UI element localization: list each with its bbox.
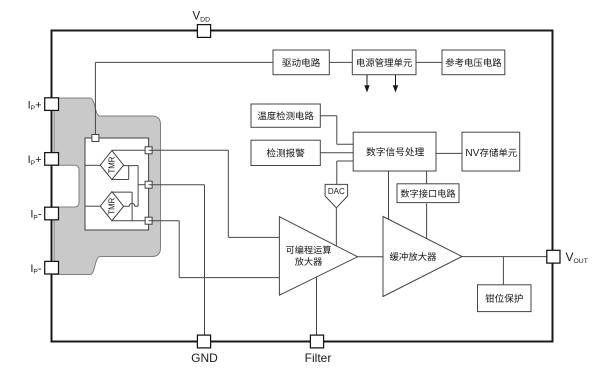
TMR element 1 xyxy=(100,151,123,180)
block power management unit xyxy=(352,50,416,75)
wire node B to GND xyxy=(149,184,205,186)
pin Filter pad xyxy=(310,335,323,348)
wire d1-top to node A xyxy=(112,149,149,151)
wire d2-top horizontal xyxy=(112,191,132,193)
block clamp protection xyxy=(478,285,532,312)
svg-text:TMR: TMR xyxy=(107,156,116,173)
node A xyxy=(145,147,152,154)
TMR bridge frame xyxy=(85,138,149,230)
wire DSP to DAC xyxy=(337,160,353,162)
block drive circuit xyxy=(273,50,329,75)
svg-text:IP-: IP- xyxy=(30,209,41,222)
wire drive to bridge horizontal xyxy=(95,61,273,63)
wire frame-left to d1-left xyxy=(85,164,100,166)
arrow 1 from power mgmt xyxy=(366,75,368,87)
wire to clamp protection xyxy=(502,257,504,285)
pin IP3 pad xyxy=(45,207,59,220)
wire DAC to op-amp xyxy=(335,208,337,246)
pin IP2 pad xyxy=(45,153,59,166)
node C xyxy=(145,217,152,224)
block detection alarm xyxy=(251,140,320,165)
pin VOUT pad xyxy=(547,250,560,263)
wire drive to power mgmt xyxy=(329,61,352,63)
wire temp sense to DSP xyxy=(320,115,337,117)
wire node C to op-amp in2 xyxy=(149,220,180,222)
arrow 2 from power mgmt xyxy=(395,75,397,87)
wire d2-bottom to node C xyxy=(112,220,149,222)
svg-text:VDD: VDD xyxy=(193,11,211,24)
svg-text:TMR: TMR xyxy=(107,197,116,214)
svg-text:DAC: DAC xyxy=(328,187,345,196)
pin VDD pad xyxy=(197,25,210,38)
node top (drive in) xyxy=(92,135,99,142)
svg-text:Filter: Filter xyxy=(305,351,332,365)
block NV storage unit xyxy=(462,132,520,171)
svg-text:IP+: IP+ xyxy=(28,99,42,112)
svg-text:NV: NV xyxy=(465,148,479,159)
op-amp programmable amplifier xyxy=(279,217,357,296)
wire jog vertical xyxy=(128,166,130,180)
wire alarm to DSP xyxy=(320,152,353,154)
block reference voltage circuit xyxy=(442,50,505,75)
wire DSP to NV memory xyxy=(436,152,462,154)
wire d2-right with hop xyxy=(122,203,138,206)
wire DSP to buffer amp xyxy=(388,171,390,219)
block digital interface circuit xyxy=(397,184,459,203)
wire op-amp to Filter pin xyxy=(316,277,318,335)
pin IP4 pad xyxy=(45,261,59,274)
wire series vertical to node B xyxy=(137,166,139,207)
wire mid vertical to node C rail xyxy=(131,192,133,221)
wire tap to node B xyxy=(138,184,149,186)
wire op-amp to buffer xyxy=(358,256,383,258)
pin IP1 pad xyxy=(45,98,59,111)
block digital signal processing xyxy=(353,132,436,171)
TMR element 2 xyxy=(100,192,123,221)
wire d1-right jog xyxy=(122,165,138,167)
buffer amplifier xyxy=(383,217,462,297)
pin GND pad xyxy=(197,335,210,348)
current conductor rail (shaded) xyxy=(54,98,161,275)
wire DSP to digital interface xyxy=(426,171,428,184)
DAC converter xyxy=(325,184,348,207)
wire node A to op-amp in1 xyxy=(149,149,229,151)
wire d1-bottom horizontal xyxy=(112,179,129,181)
block temperature detection circuit xyxy=(251,104,320,127)
node B xyxy=(145,181,152,188)
wire drive to bridge vertical xyxy=(94,62,96,134)
svg-text:IP+: IP+ xyxy=(28,154,42,167)
wire frame-left to d2-left xyxy=(85,205,100,207)
svg-text:GND: GND xyxy=(191,351,218,365)
wire buffer to VOUT xyxy=(462,256,547,258)
svg-text:IP-: IP- xyxy=(30,263,41,276)
chip outline xyxy=(52,31,553,342)
wire power mgmt to vref xyxy=(416,61,442,63)
svg-text:VOUT: VOUT xyxy=(566,250,588,265)
wire digital interface to buffer amp xyxy=(426,204,428,239)
